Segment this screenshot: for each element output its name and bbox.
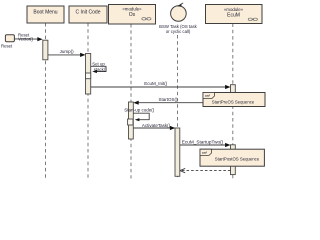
interaction use StartPreOS Sequence <box>203 93 265 107</box>
svg-text:«module»: «module» <box>224 7 244 12</box>
object C Init Code <box>69 6 107 23</box>
lifeline Os <box>130 24 132 179</box>
svg-text:Boot Menu: Boot Menu <box>33 10 57 16</box>
object module EcuM <box>206 5 263 24</box>
svg-text:Reset: Reset <box>1 43 13 48</box>
nested activation set up stack <box>86 73 91 79</box>
object Boot Menu <box>27 6 64 23</box>
activation EcuM second <box>231 145 236 175</box>
lifeline Boot Menu <box>45 23 47 179</box>
composite icon EcuM <box>248 18 257 21</box>
lifeline BSW Task <box>177 35 179 179</box>
svg-text:Vector(): Vector() <box>18 36 34 41</box>
svg-text:C Init Code: C Init Code <box>75 10 100 16</box>
composite icon Os <box>142 18 151 21</box>
lifeline EcuM <box>232 24 234 179</box>
message StartOS() <box>133 97 230 105</box>
return message dashed <box>180 168 231 172</box>
activation BSW Task <box>175 128 180 176</box>
self message Set up stack() <box>91 61 108 73</box>
activation EcuM first <box>231 85 236 104</box>
svg-text:«module»: «module» <box>122 7 142 12</box>
svg-text:stack(): stack() <box>94 67 107 72</box>
activation Os <box>129 102 134 139</box>
label BSW Task <box>159 24 197 34</box>
svg-text:EcuM: EcuM <box>227 12 240 18</box>
found message source Reset <box>1 35 14 49</box>
message Reset Vector() <box>14 32 42 41</box>
svg-text:Os: Os <box>129 12 136 18</box>
svg-text:Start-up code(): Start-up code() <box>124 107 155 112</box>
svg-text:StartPostOS Sequence: StartPostOS Sequence <box>215 157 260 162</box>
message ActivateTask() <box>133 123 175 130</box>
object module Os <box>109 5 156 25</box>
svg-text:EcuM_Init(): EcuM_Init() <box>144 81 168 86</box>
svg-text:or cyclic call): or cyclic call) <box>166 29 191 34</box>
message EcuM_StartupTwo() <box>180 140 231 148</box>
svg-text:EcuM_StartupTwo(): EcuM_StartupTwo() <box>182 140 224 145</box>
nested activation startup code <box>128 119 133 125</box>
message Jump() <box>48 49 86 57</box>
svg-text:StartOS(): StartOS() <box>158 97 178 102</box>
self message Start-up code() <box>124 107 155 121</box>
svg-text:Set up: Set up <box>92 61 105 66</box>
activation C Init Code <box>86 54 91 95</box>
svg-text:ActivateTask(): ActivateTask() <box>142 123 171 128</box>
interaction use StartPostOS Sequence <box>200 149 264 166</box>
svg-text:Jump(): Jump() <box>60 49 75 54</box>
actor BSW Task circle <box>171 3 187 21</box>
lifeline C Init Code <box>87 23 89 179</box>
message EcuM_Init() <box>91 81 231 89</box>
activation Boot Menu <box>43 40 48 60</box>
svg-text:StartPreOS Sequence: StartPreOS Sequence <box>212 100 255 105</box>
